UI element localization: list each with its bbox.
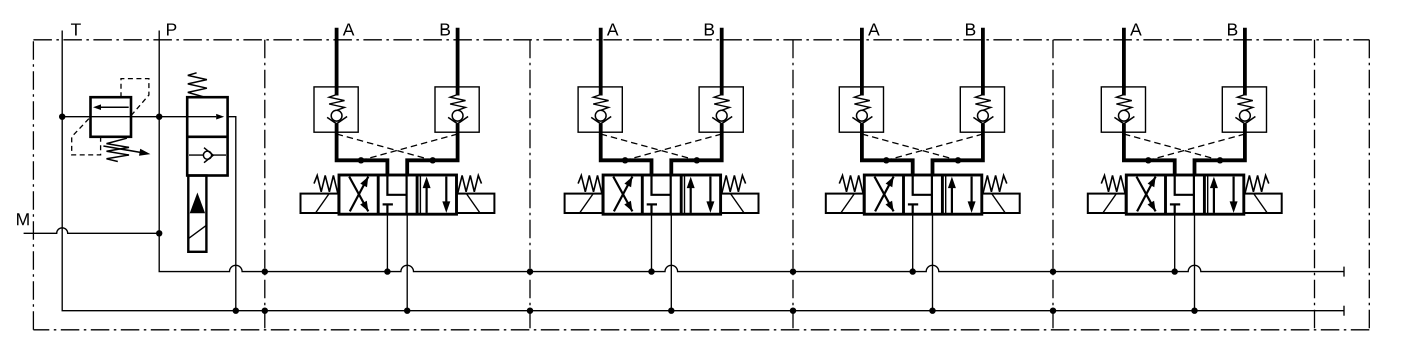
node: V2 T on tank gallery <box>668 308 674 314</box>
V4 left solenoid actuator box <box>1088 194 1126 213</box>
wire: check valve B1 to spool port (bold) <box>407 124 457 177</box>
inlet check valve seat <box>204 148 213 163</box>
check valve B3 seat <box>973 117 993 124</box>
V4 right solenoid actuator box <box>1244 194 1282 213</box>
wire: V3 P port to pressure gallery <box>912 214 914 271</box>
V1 parallel-flow position arrows <box>427 177 447 213</box>
check valve A1 seat <box>327 117 347 124</box>
wire: check valve A4 to spool port (bold) <box>1124 124 1175 177</box>
wire: check valve A2 to spool port (bold) <box>601 124 652 177</box>
check valve A1 spring <box>329 95 344 111</box>
pilot operated check valve A2 enclosure <box>578 87 622 132</box>
section divider line 2 <box>529 40 531 330</box>
V1 neutral position passages <box>383 175 407 214</box>
check valve B1 ball <box>452 110 463 121</box>
port label M <box>17 213 29 225</box>
wire: V4 T port to tank gallery <box>1194 214 1196 311</box>
check valve B3 ball <box>978 110 989 121</box>
node: P line / relief line junction <box>156 114 162 120</box>
port label B (section 4) <box>1228 23 1237 35</box>
node: pressure gallery at divider 1 <box>262 268 268 274</box>
pilot line check B3 (dashed cross) <box>886 134 983 160</box>
check valve B2 spring <box>714 95 729 111</box>
check valve B1 seat <box>448 117 468 124</box>
directional spool valve V4 body (3 positions) <box>1126 175 1244 214</box>
inlet unloader flow arrow <box>216 114 224 120</box>
node: V4 P on pressure gallery <box>1172 268 1178 274</box>
V2 parallel-flow position arrows <box>691 177 711 213</box>
node: P line / M line junction <box>156 230 162 236</box>
check valve A4 seat <box>1114 117 1134 124</box>
check valve A4 ball <box>1119 110 1130 121</box>
inlet unloader spring <box>188 73 207 97</box>
node: V3 P on pressure gallery <box>910 268 916 274</box>
directional spool valve V1 body (3 positions) <box>339 175 457 214</box>
port line B3 (bold) <box>981 28 985 96</box>
port label T <box>71 23 81 35</box>
wire: V2 P port to pressure gallery <box>651 214 653 271</box>
pilot operated check valve B4 enclosure <box>1222 87 1266 132</box>
wire: check valve A3 to spool port (bold) <box>862 124 913 177</box>
relief valve drain pilot line (dashed, bottom) <box>72 117 101 155</box>
check valve B3 spring <box>975 95 990 111</box>
check valve A2 spring <box>593 95 608 111</box>
solenoid coil diagonal <box>189 225 207 238</box>
port label A (section 4) <box>1130 23 1142 35</box>
node: pressure gallery at divider 4 <box>1050 268 1056 274</box>
enclosure border (dash-dot envelope) <box>33 40 1369 330</box>
node: tank gallery at divider 4 <box>1050 308 1056 314</box>
port label A (section 3) <box>868 23 880 35</box>
tank gallery end cap <box>1343 306 1345 316</box>
node: pressure gallery at divider 3 <box>790 268 796 274</box>
wire: V1 P port to pressure gallery <box>386 214 388 271</box>
V1 right solenoid actuator box <box>457 194 495 213</box>
V4 crossed-flow position arrows <box>1137 177 1156 212</box>
node: V2 P on pressure gallery <box>648 268 654 274</box>
node: pilot junction on A1 branch <box>358 157 364 163</box>
check valve B1 spring <box>450 95 465 111</box>
wire: relief/inlet supply line T to P to unloader <box>62 116 216 118</box>
port line A3 (bold) <box>860 28 864 96</box>
node: V1 T on tank gallery <box>404 308 410 314</box>
V3 parallel-flow position arrows <box>952 177 972 213</box>
V4 parallel-flow position arrows <box>1214 177 1234 213</box>
V2 neutral position passages <box>647 175 671 214</box>
check valve A1 ball <box>331 110 342 121</box>
pilot operated check valve B3 enclosure <box>960 87 1004 132</box>
V4 right return spring <box>1245 175 1269 193</box>
node: pilot junction on B2 branch <box>694 157 700 163</box>
check valve A4 spring <box>1116 95 1131 111</box>
check valve A3 seat <box>852 117 872 124</box>
check valve B4 seat <box>1235 117 1255 124</box>
port label B (section 1) <box>441 23 450 35</box>
port label B (section 3) <box>966 23 975 35</box>
wire: check valve B3 to spool port (bold) <box>933 124 983 177</box>
wire: M gauge line with jump over T line <box>24 228 160 233</box>
wire: V2 T port to tank gallery <box>670 214 672 311</box>
check valve A2 ball <box>595 110 606 121</box>
V2 crossed-flow position arrows <box>613 177 632 212</box>
inlet check valve ball <box>203 151 211 159</box>
wire: V1 T port to tank gallery <box>406 214 408 311</box>
check valve B2 seat <box>712 117 732 124</box>
port line B2 (bold) <box>720 28 724 96</box>
node: pilot junction on B1 branch <box>430 157 436 163</box>
node: tank gallery at divider 2 <box>527 308 533 314</box>
node: pilot junction on A4 branch <box>1145 157 1151 163</box>
port line A2 (bold) <box>599 28 603 96</box>
pilot operated check valve B2 enclosure <box>699 87 743 132</box>
V3 crossed-flow position arrows <box>875 177 894 212</box>
pressure relief valve body <box>91 97 132 137</box>
directional spool valve V2 body (3 positions) <box>603 175 721 214</box>
node: pressure gallery at divider 2 <box>527 268 533 274</box>
node: pilot junction on A2 branch <box>622 157 628 163</box>
node: unloader drain on tank gallery <box>233 308 239 314</box>
check valve A3 ball <box>857 110 868 121</box>
check valve A2 seat <box>591 117 611 124</box>
V2 right return spring <box>722 175 746 193</box>
V1 left solenoid actuator box <box>301 194 339 213</box>
V3 neutral position passages <box>908 175 932 214</box>
pilot operated check valve A1 enclosure <box>314 87 358 132</box>
node: T line / relief line junction <box>59 114 65 120</box>
port line A4 (bold) <box>1122 28 1126 96</box>
port label B (section 2) <box>705 23 714 35</box>
node: pilot junction on A3 branch <box>883 157 889 163</box>
wire: check valve A1 to spool port (bold) <box>337 124 388 177</box>
relief valve adjustment arrow <box>103 146 141 153</box>
node: V4 T on tank gallery <box>1191 308 1197 314</box>
V1 left return spring <box>314 175 338 193</box>
wire: unloader outlet to tank gallery <box>228 117 236 311</box>
pilot line check B4 (dashed cross) <box>1148 134 1245 160</box>
pilot line check B1 (dashed cross) <box>361 134 458 160</box>
pilot line check A1 (dashed cross) <box>337 134 433 160</box>
pressure gallery end cap <box>1343 267 1345 277</box>
pilot line check A2 (dashed cross) <box>601 134 697 160</box>
section divider line 3 <box>792 40 794 330</box>
check valve B4 spring <box>1237 95 1252 111</box>
V1 crossed-flow position arrows <box>349 177 368 212</box>
node: V3 T on tank gallery <box>929 308 935 314</box>
V4 neutral position passages <box>1170 175 1194 214</box>
pilot line check B2 (dashed cross) <box>625 134 722 160</box>
V2 left solenoid actuator box <box>565 194 603 213</box>
solenoid vent poppet (filled triangle) <box>190 193 205 214</box>
relief valve flow arrow <box>100 106 129 108</box>
node: tank gallery at divider 1 <box>262 308 268 314</box>
port label A (section 2) <box>607 23 619 35</box>
wire: V4 P port to pressure gallery <box>1174 214 1176 271</box>
pilot operated check valve A4 enclosure <box>1101 87 1145 132</box>
node: V1 P on pressure gallery <box>384 268 390 274</box>
V4 left return spring <box>1101 175 1125 193</box>
check valve A3 spring <box>854 95 869 111</box>
pilot line check A3 (dashed cross) <box>862 134 958 160</box>
pilot line check A4 (dashed cross) <box>1124 134 1220 160</box>
port label P <box>167 23 176 35</box>
directional spool valve V3 body (3 positions) <box>864 175 982 214</box>
port line A1 (bold) <box>335 28 339 96</box>
node: pilot junction on B4 branch <box>1217 157 1223 163</box>
port label A (section 1) <box>343 23 355 35</box>
section divider line 5 <box>1314 40 1316 330</box>
wire: P line down to pressure gallery (upper bus) with crossover jumps <box>159 31 1344 272</box>
wire: check valve B2 to spool port (bold) <box>671 124 721 177</box>
pilot operated check valve B1 enclosure <box>435 87 479 132</box>
V3 left return spring <box>839 175 863 193</box>
V2 right solenoid actuator box <box>721 194 759 213</box>
wire: check valve B4 to spool port (bold) <box>1195 124 1245 177</box>
pilot operated check valve A3 enclosure <box>839 87 883 132</box>
V3 right return spring <box>983 175 1007 193</box>
inlet unloader valve body <box>187 97 227 175</box>
V3 right solenoid actuator box <box>982 194 1020 213</box>
section divider line 1 <box>264 40 266 330</box>
relief valve adjustable spring <box>107 138 130 161</box>
node: tank gallery at divider 3 <box>790 308 796 314</box>
check valve B4 ball <box>1240 110 1251 121</box>
wire: T line down to tank return gallery (lower bus) <box>62 31 1344 311</box>
node: pilot junction on B3 branch <box>955 157 961 163</box>
relief valve pilot line (dashed, top) <box>121 79 149 117</box>
wire: V3 T port to tank gallery <box>932 214 934 311</box>
V3 left solenoid actuator box <box>826 194 864 213</box>
inlet check valve line <box>189 154 226 156</box>
check valve B2 ball <box>716 110 727 121</box>
V2 left return spring <box>578 175 602 193</box>
section divider line 4 <box>1052 40 1054 330</box>
port line B4 (bold) <box>1243 28 1247 96</box>
V1 right return spring <box>458 175 482 193</box>
solenoid vent cartridge body <box>188 176 206 252</box>
port line B1 (bold) <box>456 28 460 96</box>
